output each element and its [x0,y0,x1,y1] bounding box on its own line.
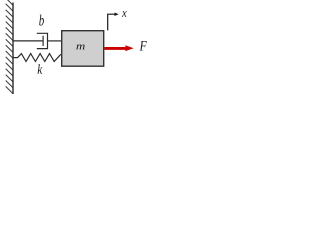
mass block m [62,31,104,66]
wall line [12,3,14,95]
spring k [13,54,61,62]
label m [76,45,84,50]
x axis arrowhead [115,12,119,16]
wall hatching [6,0,13,94]
damper cylinder (open left) [37,33,48,48]
force arrowhead [125,45,133,51]
label k [38,64,43,74]
label x [122,11,127,17]
damper rod right (wire) [48,40,62,42]
force arrow F (red) [104,47,126,50]
damper piston plate [42,36,44,46]
label b [39,15,44,26]
x axis reference line [108,14,115,30]
label F [140,41,147,50]
damper rod left (wire) [13,40,43,42]
